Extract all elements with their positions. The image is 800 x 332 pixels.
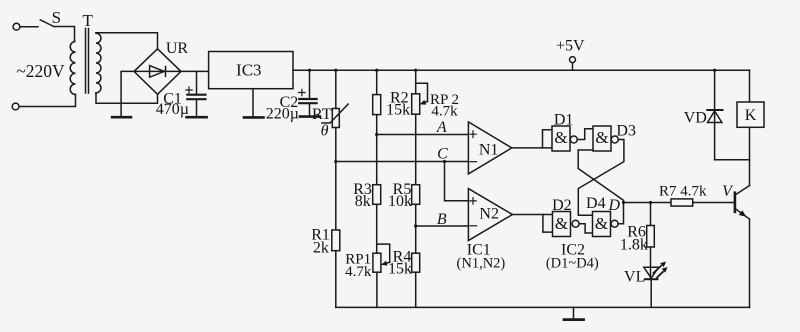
svg-text:D4: D4 [586,195,606,212]
resistor R7 [622,184,707,207]
resistor R1 [311,227,340,257]
svg-text:S: S [52,8,61,27]
gate D4 [586,195,618,237]
svg-text:C: C [437,146,448,163]
IC2 label [546,242,599,272]
svg-text:~220V: ~220V [16,61,65,81]
svg-text:VL: VL [624,269,645,286]
svg-text:R7 4.7k: R7 4.7k [659,184,707,200]
wire [376,115,378,185]
ground [112,116,131,119]
svg-text:470µ: 470µ [156,101,189,118]
wire [512,147,552,149]
svg-text:8k: 8k [355,193,371,210]
svg-text:D1: D1 [554,112,574,129]
resistor R3 [353,181,380,210]
wire [579,224,592,233]
ground [564,307,584,319]
potentiometer RP2 [412,69,459,120]
svg-text:2k: 2k [313,240,329,257]
node A [375,119,468,136]
svg-text:15k: 15k [386,102,410,119]
bridge rectifier UR [134,40,188,94]
wire [693,202,735,204]
svg-text:220µ: 220µ [266,106,299,123]
svg-text:15k: 15k [388,261,412,278]
transistor V [722,183,749,219]
resistor R2 [373,69,410,119]
svg-text:N1: N1 [479,142,499,159]
svg-text:10k: 10k [388,193,412,210]
svg-text:D3: D3 [616,123,636,140]
wire [335,251,337,308]
wire [335,128,337,231]
gate D3 [593,123,636,152]
wire [749,219,751,307]
svg-text:4.7k: 4.7k [345,264,372,280]
wire [749,160,751,186]
op-amp N2 [468,189,512,241]
wire [252,89,254,117]
wire bottom rail [336,306,750,308]
wire [181,70,209,72]
wire [121,71,134,116]
ground [187,116,207,119]
svg-text:&: & [595,214,608,233]
node D [608,197,624,224]
svg-text:T: T [83,11,94,30]
resistor R4 [388,249,420,278]
wire [376,204,378,253]
wire [415,114,417,185]
AC terminal bottom [12,103,19,110]
svg-text:V: V [722,183,734,200]
capacitor C1 [156,71,206,117]
gate D1 [552,112,577,152]
svg-text:(N1,N2): (N1,N2) [457,256,506,272]
wire [577,129,593,140]
+5V supply [556,38,585,71]
wire cross-couple D3 out to D4 in [578,140,624,216]
svg-text:4.7k: 4.7k [431,104,458,120]
wire [415,272,417,307]
svg-text:K: K [745,107,757,124]
svg-text:N2: N2 [479,206,499,223]
wire [715,159,750,161]
svg-text:IC3: IC3 [236,61,262,80]
transformer T [70,11,101,94]
svg-text:+5V: +5V [556,38,585,55]
svg-text:D: D [608,197,621,214]
resistor R6 [620,201,654,254]
ground [244,116,264,119]
IC3 U1 [209,52,293,89]
AC terminal top [13,23,20,30]
wire [376,272,378,307]
wire cross-couple D4 out to D3 in [578,150,623,200]
svg-text:RT: RT [312,106,332,123]
svg-text:D2: D2 [552,197,572,214]
LED VL [624,247,667,307]
wire +5V rail [293,69,750,71]
svg-text:θ: θ [321,123,329,140]
node B [414,211,468,228]
wire [415,204,417,253]
wire [543,215,553,233]
node C [334,146,468,201]
wire [20,26,38,28]
wire [53,27,74,42]
svg-text:&: & [595,128,608,147]
IC1 label [457,242,506,272]
wire [96,33,158,49]
op-amp N1 [468,122,511,174]
wire [19,95,75,107]
svg-text:&: & [554,128,567,147]
svg-text:(D1~D4): (D1~D4) [546,256,599,272]
svg-text:VD: VD [684,110,707,127]
svg-text:&: & [555,214,568,233]
resistor R5 [388,181,420,210]
wire [543,130,553,148]
svg-text:A: A [436,119,447,136]
wire [512,214,552,216]
gate D2 [552,197,579,237]
diode VD [684,69,723,160]
wire [96,93,158,104]
relay K [737,70,764,160]
ground [300,115,320,118]
switch S [40,8,61,27]
svg-text:1.8k: 1.8k [620,237,648,254]
thermistor RT [312,69,348,140]
potentiometer RP1 [345,244,390,280]
capacitor C2 [266,69,317,123]
svg-text:UR: UR [166,40,189,57]
wire node D to R7 [624,202,672,204]
svg-text:B: B [437,211,447,228]
